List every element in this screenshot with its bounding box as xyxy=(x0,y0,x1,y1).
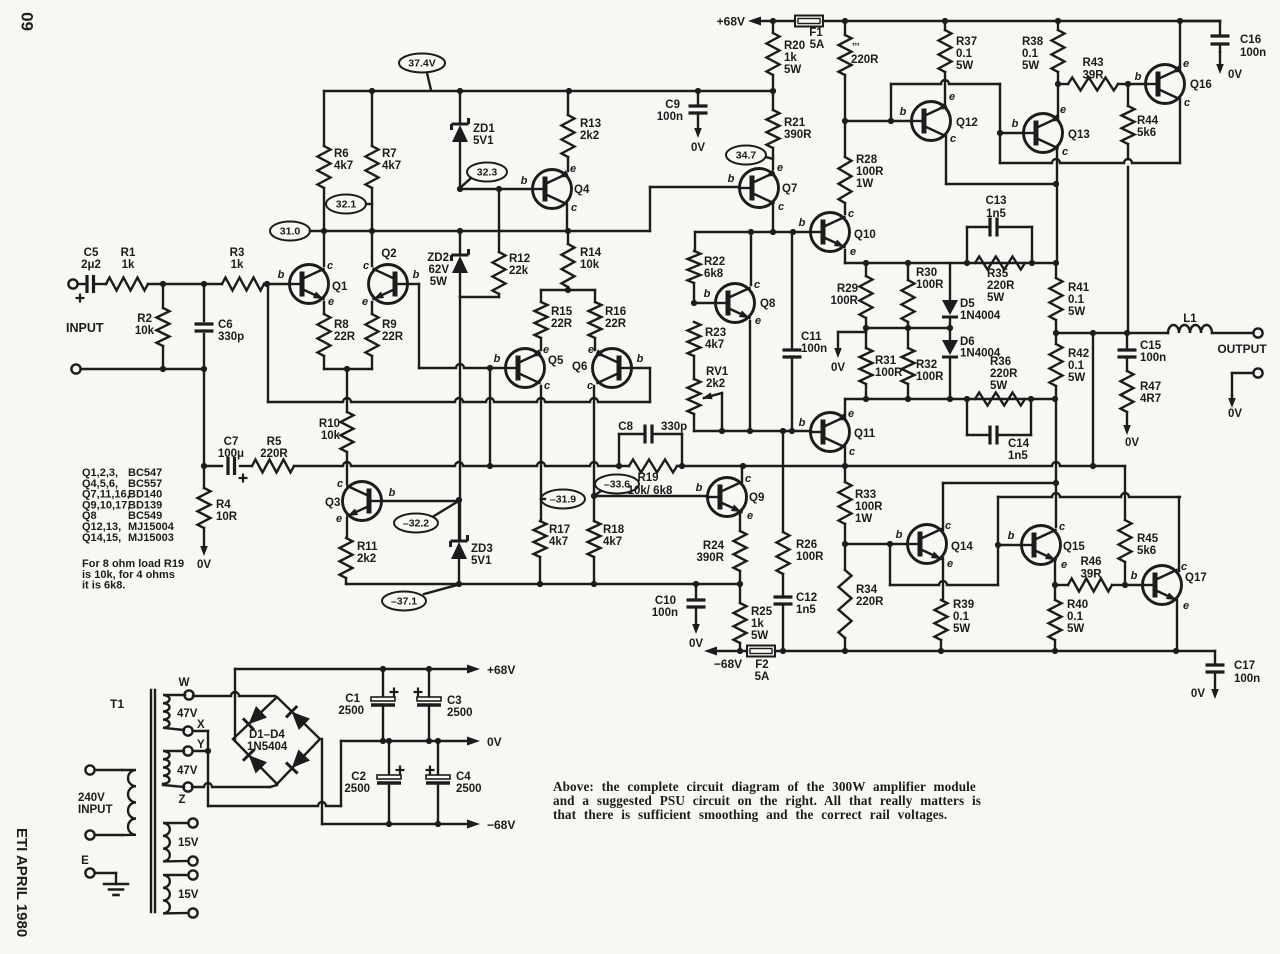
svg-text:b: b xyxy=(494,353,501,365)
svg-text:R33: R33 xyxy=(855,489,876,501)
wire W to bridge xyxy=(193,692,275,696)
svg-text:Q13: Q13 xyxy=(1068,129,1090,141)
transistor Q2 xyxy=(362,248,420,308)
svg-text:Q6: Q6 xyxy=(572,361,587,373)
resistor R19 xyxy=(628,460,677,498)
svg-text:b: b xyxy=(896,529,903,541)
wire emitter join xyxy=(324,368,372,370)
svg-text:5W: 5W xyxy=(987,292,1004,304)
svg-text:Q10: Q10 xyxy=(854,229,876,241)
node R31 bottom xyxy=(863,396,869,402)
svg-text:e: e xyxy=(848,408,854,420)
svg-text:22R: 22R xyxy=(382,331,404,343)
svg-text:R40: R40 xyxy=(1067,599,1088,611)
svg-text:4k7: 4k7 xyxy=(705,339,724,351)
svg-text:R34: R34 xyxy=(856,584,878,596)
svg-text:0.1: 0.1 xyxy=(1068,294,1085,306)
wire Q1 base drop xyxy=(267,284,269,402)
svg-text:b: b xyxy=(728,173,735,185)
resistor R3 xyxy=(222,247,289,291)
node Q16 base xyxy=(1125,81,1131,87)
svg-text:5k6: 5k6 xyxy=(1137,127,1156,139)
wire Q16 collector xyxy=(1179,99,1181,163)
svg-text:C9: C9 xyxy=(665,99,680,111)
capacitor C17 xyxy=(1206,651,1261,685)
node D5/D6 junction xyxy=(947,325,953,331)
svg-text:47V: 47V xyxy=(177,765,198,777)
svg-text:5k6: 5k6 xyxy=(1137,545,1156,557)
oval 32.3 test point xyxy=(461,163,507,188)
resistor R38 xyxy=(1022,21,1065,84)
oval -37.1 test point xyxy=(382,585,457,611)
svg-text:R19: R19 xyxy=(637,472,658,484)
svg-text:e: e xyxy=(1061,559,1067,571)
zener ZD3 xyxy=(451,500,493,584)
wire Q8 emitter xyxy=(749,321,751,431)
svg-text:1k: 1k xyxy=(784,52,797,64)
capacitor C5 xyxy=(76,247,107,303)
inductor L1 xyxy=(1168,313,1212,333)
resistor R14 xyxy=(562,231,602,290)
zener ZD2 xyxy=(427,231,468,297)
svg-text:31.0: 31.0 xyxy=(280,226,301,238)
resistor R42 xyxy=(1050,333,1090,399)
svg-text:R16: R16 xyxy=(605,306,626,318)
transistor Q3 xyxy=(325,478,396,525)
diode D1 xyxy=(243,706,267,730)
inductor T1 sec Y-Z xyxy=(163,751,184,787)
svg-text:100R: 100R xyxy=(916,279,944,291)
svg-text:220R: 220R xyxy=(987,280,1015,292)
svg-text:e: e xyxy=(949,91,955,103)
svg-text:4k7: 4k7 xyxy=(382,160,401,172)
terminal mains top xyxy=(85,765,122,774)
resistor R17 xyxy=(534,521,571,584)
node collector bus top xyxy=(1053,260,1059,266)
wire Q8 base xyxy=(694,302,715,304)
wire Q5 collector xyxy=(540,386,542,521)
svg-text:5W: 5W xyxy=(784,64,801,76)
svg-text:0.1: 0.1 xyxy=(1067,611,1084,623)
node C3 top xyxy=(426,666,432,672)
wire Y link xyxy=(193,750,208,752)
wire R42 to Q15 collector xyxy=(1055,399,1057,527)
svg-text:e: e xyxy=(543,344,549,356)
resistor R34 xyxy=(839,544,885,651)
capacitor C8 xyxy=(618,421,687,466)
svg-text:R41: R41 xyxy=(1068,282,1090,294)
svg-text:E: E xyxy=(81,855,89,867)
svg-text:22k: 22k xyxy=(509,265,529,277)
svg-text:1W: 1W xyxy=(855,513,872,525)
potentiometer RV1 xyxy=(688,366,729,431)
svg-text:e: e xyxy=(1183,600,1189,612)
svg-text:R20: R20 xyxy=(784,40,805,52)
node C11 bottom xyxy=(789,428,795,434)
capacitor C4 xyxy=(426,741,482,824)
node C12 bottom xyxy=(780,648,786,654)
power +68V xyxy=(717,15,761,29)
terminal 15V-1a xyxy=(188,818,197,827)
svg-text:4k7: 4k7 xyxy=(603,536,622,548)
terminal earth xyxy=(81,855,94,878)
svg-text:MJ15003: MJ15003 xyxy=(128,532,174,544)
svg-text:C7: C7 xyxy=(224,436,239,448)
resistor R47 xyxy=(1121,371,1162,412)
resistor R21 xyxy=(767,91,813,169)
svg-text:+68V: +68V xyxy=(487,663,515,677)
node C2 bottom xyxy=(386,821,392,827)
node R1/R2 junction xyxy=(160,281,204,287)
resistor R25 xyxy=(734,584,773,651)
svg-text:100n: 100n xyxy=(652,607,678,619)
text 15V lower xyxy=(178,889,199,901)
node Q9 base junction xyxy=(591,493,597,499)
wire Q15 emitter xyxy=(1054,559,1056,585)
wire Q13 collector xyxy=(1056,147,1058,263)
capacitor C12 xyxy=(774,592,818,651)
svg-text:c: c xyxy=(849,446,855,458)
terminal Z xyxy=(178,782,192,806)
svg-text:R22: R22 xyxy=(704,256,725,268)
svg-text:1k: 1k xyxy=(751,618,764,630)
svg-text:D5: D5 xyxy=(960,298,975,310)
node C3 bottom xyxy=(426,738,432,744)
ground 0V at R4 xyxy=(197,528,211,571)
svg-text:0.1: 0.1 xyxy=(1022,48,1039,60)
svg-text:R7: R7 xyxy=(382,148,397,160)
svg-text:b: b xyxy=(521,175,528,187)
inductor T1 primary xyxy=(122,770,136,835)
node C2 top xyxy=(386,738,392,744)
node RV1 wiper xyxy=(719,428,725,434)
svg-text:c: c xyxy=(745,473,751,485)
svg-text:220R: 220R xyxy=(260,448,288,460)
node R18 bottom xyxy=(591,581,597,587)
svg-text:330p: 330p xyxy=(218,331,244,343)
svg-text:100n: 100n xyxy=(1240,47,1266,59)
svg-text:60: 60 xyxy=(18,12,37,31)
node C6 top xyxy=(201,281,222,287)
svg-text:10k: 10k xyxy=(135,325,155,337)
wire input ground drop xyxy=(203,369,205,466)
wire Q11 emitter xyxy=(845,399,1055,418)
svg-text:e: e xyxy=(1060,104,1066,116)
node Q3 base xyxy=(456,497,462,503)
wire Q6 emitter xyxy=(594,338,596,350)
svg-text:R32: R32 xyxy=(916,359,937,371)
svg-text:–33.6: –33.6 xyxy=(604,479,630,491)
transistor Q7 xyxy=(728,162,798,213)
node R38 top xyxy=(1055,18,1061,24)
resistor R13 xyxy=(562,91,602,171)
svg-text:–37.1: –37.1 xyxy=(391,596,417,608)
resistor R41 xyxy=(1050,263,1090,333)
capacitor C9 xyxy=(657,91,708,123)
inductor T1 sec 15V-2 xyxy=(163,875,188,913)
svg-text:220R: 220R xyxy=(856,596,884,608)
wire centre tap xyxy=(193,731,341,806)
svg-text:22R: 22R xyxy=(334,331,356,343)
transistor Q5 xyxy=(494,344,564,392)
svg-text:e: e xyxy=(777,162,783,174)
svg-text:Q1: Q1 xyxy=(332,281,348,293)
svg-text:R31: R31 xyxy=(875,355,897,367)
svg-text:100R: 100R xyxy=(916,371,944,383)
text 240V INPUT xyxy=(78,792,113,816)
svg-text:b: b xyxy=(1008,530,1015,542)
svg-text:W: W xyxy=(179,677,190,689)
svg-text:ZD1: ZD1 xyxy=(473,123,495,135)
svg-text:L1: L1 xyxy=(1183,313,1197,325)
node R2 bottom xyxy=(160,366,166,372)
wire bridge diamond xyxy=(233,697,320,784)
wire Q8 collector xyxy=(750,232,752,285)
svg-text:c: c xyxy=(754,279,760,291)
node Q1 collector rail xyxy=(321,228,327,234)
svg-text:22R: 22R xyxy=(551,318,573,330)
svg-text:–32.2: –32.2 xyxy=(403,518,429,530)
svg-text:b: b xyxy=(413,269,420,281)
svg-text:5W: 5W xyxy=(1068,372,1085,384)
inductor T1 sec 15V-1 xyxy=(163,823,188,861)
svg-text:R10: R10 xyxy=(319,418,340,430)
capacitor C13 xyxy=(967,195,1032,263)
svg-text:32.1: 32.1 xyxy=(336,199,357,211)
wire L1 to output xyxy=(1212,332,1253,334)
svg-text:Q4: Q4 xyxy=(574,184,590,196)
svg-text:INPUT: INPUT xyxy=(66,321,104,335)
node R27 top xyxy=(842,18,848,24)
node R13 top xyxy=(566,88,572,94)
svg-text:R6: R6 xyxy=(334,148,349,160)
node R33/R34 junction xyxy=(842,541,848,547)
svg-text:C10: C10 xyxy=(655,595,676,607)
svg-text:5W: 5W xyxy=(1022,60,1039,72)
node C6 bottom xyxy=(201,366,207,372)
resistor R39 xyxy=(935,599,975,651)
svg-text:e: e xyxy=(588,344,594,356)
svg-text:C1: C1 xyxy=(345,693,360,705)
node R14 bottom xyxy=(565,287,571,293)
wire Q14 emitter xyxy=(942,558,944,600)
resistor R32 xyxy=(902,328,945,399)
text page number xyxy=(18,12,37,31)
wire Q12 base line xyxy=(845,120,911,122)
transistor Q10 xyxy=(799,208,876,258)
svg-text:b: b xyxy=(1012,118,1019,130)
svg-text:10R: 10R xyxy=(216,511,238,523)
oval -32.2 test point xyxy=(394,502,457,533)
svg-text:−68V: −68V xyxy=(714,657,742,671)
wire -68V PSU rail xyxy=(322,818,515,832)
diode D3 xyxy=(243,750,267,774)
svg-text:R23: R23 xyxy=(705,327,726,339)
ground 0V mid tap xyxy=(831,332,866,374)
svg-text:100n: 100n xyxy=(1234,673,1260,685)
transistor Q14 xyxy=(896,520,974,570)
svg-text:0V: 0V xyxy=(831,362,845,374)
node C15 tap xyxy=(1124,330,1130,336)
capacitor C16 xyxy=(1211,21,1267,59)
svg-text:ZD3: ZD3 xyxy=(471,543,493,555)
fuse F2 xyxy=(747,646,775,684)
resistor R44 xyxy=(1122,84,1159,333)
node R42 bottom xyxy=(1052,396,1058,402)
node feedback divider xyxy=(487,463,493,469)
svg-text:Q16: Q16 xyxy=(1190,79,1212,91)
svg-text:0.1: 0.1 xyxy=(953,611,970,623)
svg-text:D1–D4: D1–D4 xyxy=(249,729,285,741)
svg-text:R29: R29 xyxy=(837,283,858,295)
svg-text:22R: 22R xyxy=(605,318,627,330)
svg-text:2500: 2500 xyxy=(456,783,482,795)
wire R37 lead to Q12 emitter xyxy=(944,72,946,107)
terminal W xyxy=(179,677,194,700)
svg-text:b: b xyxy=(1135,71,1142,83)
resistor R5 xyxy=(252,436,294,473)
wire Q11 base line xyxy=(694,430,810,432)
node C8 left xyxy=(616,463,622,469)
svg-text:10k: 10k xyxy=(580,259,600,271)
capacitor C10 xyxy=(652,584,706,619)
capacitor C6 xyxy=(195,284,245,369)
svg-text:c: c xyxy=(363,260,369,272)
transistor Q8 xyxy=(704,279,776,327)
wire Q17 base line xyxy=(1125,584,1142,586)
svg-text:X: X xyxy=(197,719,205,731)
svg-text:c: c xyxy=(950,133,956,145)
svg-text:220R: 220R xyxy=(851,54,879,66)
wire -68V supply rail xyxy=(717,650,1215,652)
wire Q15 base line xyxy=(998,544,1021,546)
svg-text:Q11: Q11 xyxy=(854,428,876,440)
svg-text:5W: 5W xyxy=(1068,306,1085,318)
terminal OUTPUT hot xyxy=(1217,328,1267,356)
capacitor C14 xyxy=(967,399,1031,462)
node R17 bottom xyxy=(537,581,543,587)
resistor R43 xyxy=(1058,57,1128,91)
svg-text:e: e xyxy=(336,513,342,525)
node R20 top xyxy=(770,18,776,24)
svg-text:1N5404: 1N5404 xyxy=(247,741,288,753)
svg-text:D6: D6 xyxy=(960,336,975,348)
text INPUT xyxy=(66,321,104,335)
wire 0V PSU rail xyxy=(341,735,502,749)
node Q12 base tap xyxy=(888,118,894,124)
wire T1 core xyxy=(151,690,155,912)
oval -33.6 test point xyxy=(595,475,639,496)
svg-text:Q2: Q2 xyxy=(381,248,396,260)
resistor R4 xyxy=(198,466,238,528)
svg-text:Q12: Q12 xyxy=(956,117,978,129)
transistor Q13 xyxy=(1012,104,1090,158)
svg-text:R37: R37 xyxy=(956,36,977,48)
capacitor C7 xyxy=(218,436,248,483)
svg-text:c: c xyxy=(1059,521,1065,533)
oval 31.0 test point xyxy=(270,222,324,241)
wire Q17 collector xyxy=(1178,497,1180,571)
svg-text:34.7: 34.7 xyxy=(736,150,757,162)
text 15V upper xyxy=(178,837,199,849)
svg-text:0V: 0V xyxy=(197,559,211,571)
svg-text:–31.9: –31.9 xyxy=(550,494,576,506)
svg-text:390R: 390R xyxy=(697,552,725,564)
wire Q1 collector xyxy=(323,231,325,266)
svg-text:R9: R9 xyxy=(382,319,397,331)
node Q16 emitter rail xyxy=(1177,18,1183,24)
diode D2 xyxy=(286,706,310,730)
node R32 bottom xyxy=(905,396,911,402)
svg-text:5A: 5A xyxy=(755,671,770,683)
wire R10 to Q3 collector xyxy=(346,452,348,484)
resistor R9 xyxy=(366,302,404,369)
terminal 15V-2a xyxy=(188,870,197,879)
svg-text:and a suggested PSU circuit on: and a suggested PSU circuit on the right… xyxy=(553,793,981,808)
svg-text:100R: 100R xyxy=(875,367,903,379)
wire Q2 base link xyxy=(408,283,419,285)
wire bridge plus riser xyxy=(234,669,236,739)
resistor R33 xyxy=(839,466,884,544)
node Q9 collector rail xyxy=(740,463,746,469)
svg-text:C2: C2 xyxy=(351,771,366,783)
resistor R37 xyxy=(939,21,978,72)
node Q8 base xyxy=(691,300,697,306)
svg-text:2500: 2500 xyxy=(344,783,370,795)
wire output line xyxy=(1056,332,1168,334)
node Q17 emitter rail xyxy=(1173,648,1179,654)
resistor R24 xyxy=(697,531,747,584)
node Q12/Q13 collector join xyxy=(1053,181,1059,187)
wire Q12 collector xyxy=(946,136,1056,184)
text caption xyxy=(553,779,981,822)
resistor R1 xyxy=(106,247,163,291)
wire Q3 emitter xyxy=(346,518,348,538)
svg-text:C13: C13 xyxy=(985,195,1006,207)
svg-text:Q8: Q8 xyxy=(760,298,776,310)
svg-text:R45: R45 xyxy=(1137,533,1159,545)
oval 37.4V test point xyxy=(399,54,445,91)
svg-text:b: b xyxy=(637,353,644,365)
transistor Q9 xyxy=(696,473,765,522)
svg-text:100μ: 100μ xyxy=(218,448,244,460)
svg-text:15V: 15V xyxy=(178,889,199,901)
svg-text:INPUT: INPUT xyxy=(78,804,113,816)
svg-text:100R: 100R xyxy=(831,295,859,307)
svg-text:c: c xyxy=(1062,146,1068,158)
node C13 left xyxy=(964,260,970,266)
fuse F1 xyxy=(795,16,824,52)
node ZD1 top xyxy=(457,88,463,94)
svg-text:c: c xyxy=(1181,561,1187,573)
svg-text:0V: 0V xyxy=(689,638,703,650)
svg-text:2k2: 2k2 xyxy=(580,130,599,142)
wire -31.9 leader xyxy=(541,498,545,500)
svg-text:R47: R47 xyxy=(1140,381,1161,393)
svg-text:R42: R42 xyxy=(1068,348,1089,360)
wire zener column xyxy=(459,297,461,541)
svg-text:ZD2: ZD2 xyxy=(427,252,449,264)
transistor Q11 xyxy=(799,408,876,458)
text transistor types xyxy=(82,467,184,592)
text 47V upper xyxy=(177,708,198,720)
svg-text:+68V: +68V xyxy=(717,15,745,29)
capacitor C1 xyxy=(338,669,398,741)
svg-text:c: c xyxy=(544,380,550,392)
node rail/input-ground xyxy=(201,463,207,469)
node Q17 base xyxy=(1122,582,1128,588)
svg-text:RV1: RV1 xyxy=(706,366,729,378)
